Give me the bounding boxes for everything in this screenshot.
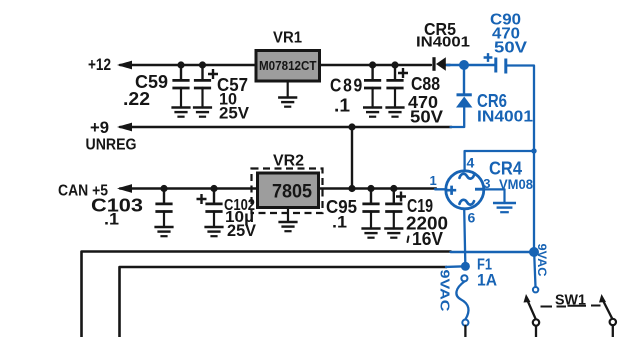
net label CAN +5 (58, 183, 108, 200)
svg-text:M07812CT: M07812CT (259, 59, 317, 73)
svg-text:50V: 50V (410, 107, 443, 127)
svg-text:+9: +9 (90, 118, 109, 137)
value CR6 IN4001 (477, 109, 533, 126)
svg-text:25V: 25V (219, 104, 250, 123)
linkage SW1 dashed (541, 306, 601, 307)
label C57 (217, 75, 248, 95)
label VR1 (273, 30, 302, 47)
capacitor C88 (386, 65, 408, 89)
junction dot C102 (210, 185, 217, 192)
value C95 .1 (332, 213, 347, 232)
net label +9 (90, 118, 109, 137)
junction dot C95 (367, 185, 374, 192)
wire VR2 input (319, 187, 436, 189)
svg-text:.1: .1 (332, 213, 347, 232)
label SW1 (555, 292, 586, 309)
junction dot C88 (391, 61, 398, 68)
svg-text:.1: .1 (104, 210, 119, 229)
svg-text:IN4001: IN4001 (416, 34, 470, 51)
svg-text:9VAC: 9VAC (438, 270, 452, 312)
svg-text:7805: 7805 (272, 182, 312, 203)
regulator VR2 dashed outline (252, 169, 323, 214)
label C59 (135, 72, 168, 92)
switch SW1 pole A (524, 294, 540, 337)
junction dot 9VAC-F1 (461, 262, 470, 271)
label C90 (490, 12, 521, 29)
svg-text:3: 3 (483, 176, 490, 191)
label C19 (407, 196, 433, 216)
regulator VR1 box (256, 51, 320, 82)
label C88 (411, 74, 440, 94)
ground C19 (384, 213, 403, 238)
value C102 25V (227, 222, 256, 240)
value C59 .22 (123, 89, 150, 109)
regulator VR2 box (258, 173, 319, 208)
diode CR5 (434, 57, 450, 71)
svg-text:IN4001: IN4001 (477, 109, 533, 126)
ground C102 (204, 213, 223, 237)
value F1 1A (477, 271, 497, 290)
svg-text:C88: C88 (411, 74, 440, 94)
net label 9VAC left (438, 270, 452, 312)
wire 9VAC to SW1 (533, 256, 538, 292)
value C90 470 (492, 26, 520, 43)
label C103 (91, 196, 143, 216)
ground C88 (385, 89, 404, 117)
pin label 6 (468, 210, 476, 226)
value C19 16V (408, 229, 444, 249)
wire F1 to switch (464, 326, 466, 337)
junction dot +9 tap (348, 123, 355, 130)
ground VR1 (278, 81, 297, 107)
label C95 (326, 197, 357, 217)
capacitor C89 (364, 65, 381, 89)
wire CR4 pin3 (484, 188, 505, 190)
ground CR4 pin3 (493, 190, 516, 213)
label CR5 (424, 19, 456, 39)
svg-text:.22: .22 (123, 89, 150, 109)
ground C57 (193, 89, 212, 117)
wire +9 to VR2 input (351, 127, 353, 189)
ground VR2 (278, 208, 297, 232)
pin label 3 (483, 176, 490, 191)
junction dot C19 (390, 185, 397, 192)
junction dot VR2 input tap (348, 185, 355, 192)
value CR5 IN4001 (416, 34, 470, 51)
svg-text:.1: .1 (334, 96, 350, 116)
value C103 .1 (104, 210, 119, 229)
wire +9 rail (117, 123, 452, 132)
value C57 25V (219, 104, 250, 123)
capacitor C19 (385, 189, 406, 213)
value C89 .1 (334, 96, 350, 116)
ground C103 (154, 213, 173, 237)
junction dot C89 (369, 61, 376, 68)
net label +12 (88, 55, 111, 74)
value C102 10u (225, 209, 254, 226)
svg-text:6: 6 (468, 210, 476, 226)
wire CR5 to 9VAC node (447, 64, 495, 66)
value C57 10 (219, 90, 237, 109)
diode CR6 (451, 69, 473, 127)
capacitor C103 (155, 189, 172, 213)
wire chassis outer (82, 252, 533, 337)
svg-text:4: 4 (467, 155, 475, 171)
capacitor C57 (194, 65, 218, 89)
value C88 470 (408, 92, 438, 112)
wire CR4 pin1 (435, 188, 446, 190)
ground C95 (361, 213, 380, 238)
wire CR4 pin4 (465, 151, 534, 171)
value C88 50V (410, 107, 443, 127)
ground C59 (171, 89, 190, 117)
value CR4 VM08 (499, 176, 533, 192)
label F1 (477, 257, 492, 274)
svg-text:1A: 1A (477, 271, 497, 290)
wire chassis inner (120, 266, 462, 337)
wire +12 rail (117, 61, 256, 70)
net label 9VAC right (535, 244, 549, 277)
svg-text:+12: +12 (88, 55, 111, 74)
junction dot pin4 rail (531, 148, 536, 153)
capacitor C90 (484, 53, 506, 73)
junction dot 9VAC right (529, 247, 539, 257)
svg-text:VR2: VR2 (273, 153, 304, 170)
junction dot C103 (160, 185, 167, 192)
switch SW1 pole B (599, 294, 616, 337)
bridge rectifier CR4 (446, 171, 484, 209)
value C19 2200 (406, 213, 448, 234)
ground C89 (363, 89, 382, 117)
wire C90 to right rail (506, 66, 534, 252)
svg-text:50V: 50V (494, 40, 527, 57)
wire CAN +5 rail (117, 184, 257, 193)
label CR6 (477, 91, 507, 111)
capacitor C95 (362, 189, 379, 213)
wire CR4 pin6 (464, 209, 465, 263)
svg-text:SW1: SW1 (555, 292, 586, 309)
value C90 50V (494, 40, 527, 57)
label C89 (330, 76, 364, 96)
svg-text:UNREG: UNREG (86, 137, 137, 154)
capacitor C59 (172, 65, 189, 89)
svg-text:9VAC: 9VAC (535, 244, 549, 277)
svg-text:VR1: VR1 (273, 30, 302, 47)
wire VR1 output to CR5 (320, 64, 431, 66)
junction dot C57 (199, 61, 206, 68)
node dot 12V-unreg (459, 60, 469, 70)
label VR2 (273, 153, 304, 170)
net label UNREG (86, 137, 137, 154)
pin label 4 (467, 155, 475, 171)
junction dot C59 (177, 61, 184, 68)
svg-text:25V: 25V (227, 222, 256, 240)
label CR4 (489, 159, 522, 179)
label C102 (224, 197, 255, 214)
svg-text:1: 1 (430, 173, 437, 188)
fuse F1 (456, 275, 468, 326)
svg-text:16V: 16V (412, 229, 443, 249)
pin label 1 (430, 173, 437, 188)
capacitor C102 (197, 189, 223, 213)
svg-text:C89: C89 (330, 76, 364, 96)
